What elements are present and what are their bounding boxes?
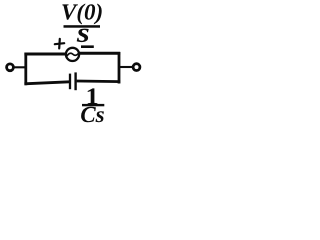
left terminal [7,64,14,71]
sine squiggle inside source [66,52,79,57]
capacitor right plate [74,72,76,90]
fraction bar 1/Cs [82,104,104,106]
fraction bar V(0)/s [64,25,101,28]
label Cs denominator [81,107,104,122]
wire right rail [118,52,121,84]
wire left terminal stub [14,66,26,68]
capacitor left plate [69,74,71,90]
right terminal [133,64,140,71]
label V(0) numerator [62,4,101,25]
wire left rail [24,53,27,86]
label s denominator [77,29,89,42]
label 1 numerator [88,88,98,104]
voltage source V(0)/s [66,48,79,61]
wire top left segment [24,53,65,56]
wire bottom right segment [77,80,121,83]
minus sign of source [81,45,94,48]
wire bottom left segment [24,82,69,84]
wire top right segment [79,52,120,55]
plus sign of source [55,39,64,49]
wire right terminal stub [119,66,133,68]
